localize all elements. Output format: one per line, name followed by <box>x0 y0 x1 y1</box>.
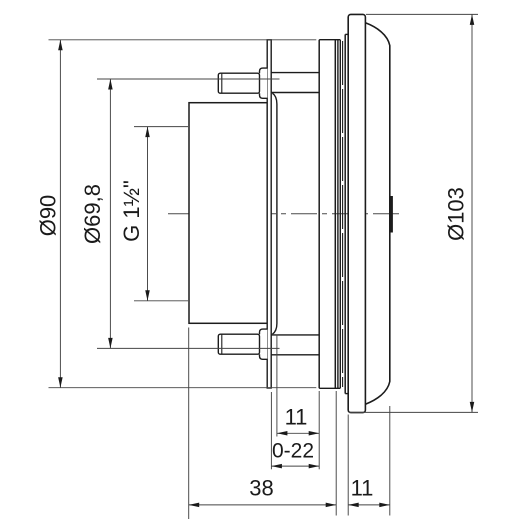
dimension D69,8 <box>97 79 280 348</box>
ring plate 3 <box>339 40 341 389</box>
clamp ring bottom edge <box>319 387 340 389</box>
dimension 11 spacer <box>277 335 319 470</box>
case back plate <box>318 40 320 389</box>
hidden edge dashed <box>342 41 344 387</box>
ring plate 2 <box>337 40 339 389</box>
front ring top step <box>345 33 348 35</box>
collar behind plate <box>272 93 277 334</box>
svg-text:0-22: 0-22 <box>272 440 314 463</box>
svg-text:Ø90: Ø90 <box>35 195 60 237</box>
svg-text:Ø69,8: Ø69,8 <box>80 184 105 244</box>
adjustment knob on case back <box>390 196 393 233</box>
svg-text:38: 38 <box>249 476 273 501</box>
svg-text:G 1½": G 1½" <box>119 180 144 242</box>
bezel rim <box>348 14 365 412</box>
bottom spacer sleeve <box>271 334 319 336</box>
dimension 0-22 <box>271 392 319 469</box>
bottom screw <box>218 329 267 359</box>
svg-text:Ø103: Ø103 <box>443 187 468 241</box>
housing body <box>189 103 267 324</box>
svg-text:11: 11 <box>285 405 308 430</box>
dimension G 1 1/2 inch <box>134 127 188 301</box>
dimension 11 case depth <box>348 406 390 516</box>
top screw <box>218 68 267 98</box>
top spacer sleeve <box>271 72 319 74</box>
svg-text:11: 11 <box>351 476 374 501</box>
clamp ring top edge <box>319 39 340 41</box>
front ring bottom step <box>345 393 348 395</box>
dimension 38 <box>189 328 337 520</box>
dimension D90 <box>49 40 317 388</box>
clamp ring outer face <box>334 40 336 389</box>
centerline <box>168 213 401 215</box>
flange plate <box>267 40 271 388</box>
front ring face <box>344 34 346 393</box>
dimension D103 <box>349 14 478 412</box>
case body profile <box>365 23 389 404</box>
